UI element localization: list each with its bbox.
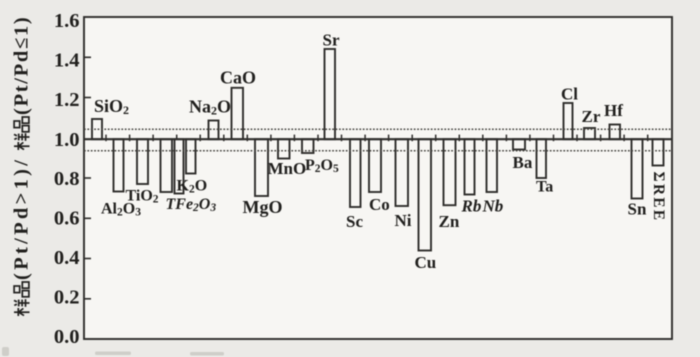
faint scan smudge bottom left bbox=[2, 347, 224, 356]
bar Sr bbox=[325, 49, 336, 139]
svg-text:1.2: 1.2 bbox=[54, 89, 80, 111]
bar Rb bbox=[465, 139, 475, 194]
svg-text:Rb: Rb bbox=[461, 197, 482, 216]
bar P2O5 bbox=[302, 139, 314, 153]
y axis title: 样品(Pt/Pd>1)/样品(Pt/Pd<=1) rotated bbox=[11, 16, 33, 316]
svg-text:Cu: Cu bbox=[415, 253, 437, 272]
svg-text:Zr: Zr bbox=[582, 107, 601, 126]
svg-text:ΣREE: ΣREE bbox=[650, 172, 667, 223]
y tick 1.4 bbox=[84, 56, 91, 58]
bar TFe2O3 b bbox=[175, 139, 184, 193]
svg-text:Ni: Ni bbox=[395, 211, 412, 230]
bars bbox=[92, 49, 664, 251]
bar SiO2 bbox=[92, 119, 102, 139]
element labels bbox=[94, 31, 667, 273]
svg-text:Nb: Nb bbox=[482, 197, 504, 216]
svg-text:Hf: Hf bbox=[604, 101, 623, 120]
bar Ni bbox=[396, 139, 409, 206]
bar Sn bbox=[632, 139, 643, 198]
svg-text:Ta: Ta bbox=[536, 179, 553, 196]
svg-text:1.6: 1.6 bbox=[54, 10, 80, 32]
svg-text:MgO: MgO bbox=[243, 197, 283, 217]
y tick 1.2 bbox=[84, 97, 91, 99]
upper dotted reference line (1.05) bbox=[84, 128, 672, 130]
bar Co bbox=[369, 139, 381, 192]
y tick 0.8 bbox=[84, 177, 91, 179]
hanzi pin 1 bbox=[14, 282, 29, 297]
bar Zr bbox=[584, 128, 595, 139]
svg-text:MnO: MnO bbox=[268, 159, 307, 178]
bar Ta bbox=[537, 139, 547, 178]
svg-text:1.0: 1.0 bbox=[54, 129, 80, 151]
svg-text:0.8: 0.8 bbox=[54, 168, 80, 190]
svg-text:0.2: 0.2 bbox=[54, 287, 80, 309]
svg-text:Sc: Sc bbox=[346, 212, 363, 231]
plot area box bbox=[84, 17, 672, 339]
bar Hf bbox=[610, 125, 621, 140]
y tick 0.4 bbox=[84, 258, 91, 260]
svg-text:Zn: Zn bbox=[439, 212, 460, 231]
bar Zn bbox=[444, 139, 456, 205]
hanzi yang 1 bbox=[14, 299, 30, 316]
bar Ba bbox=[513, 139, 525, 149]
bar MgO bbox=[255, 139, 268, 196]
y tick 0.6 bbox=[84, 217, 91, 219]
bar SigmaREE bbox=[653, 139, 664, 165]
svg-text:Sn: Sn bbox=[628, 199, 647, 218]
svg-text:Cl: Cl bbox=[561, 85, 578, 104]
svg-text:Sr: Sr bbox=[323, 31, 340, 50]
svg-text:Co: Co bbox=[369, 195, 390, 214]
svg-text:1.4: 1.4 bbox=[54, 50, 80, 72]
svg-text:Na2O: Na2O bbox=[189, 97, 231, 118]
svg-text:TFe2O3: TFe2O3 bbox=[166, 196, 217, 214]
svg-text:(Pt/Pd≤1): (Pt/Pd≤1) bbox=[11, 16, 33, 115]
bar TiO2 bbox=[137, 139, 148, 184]
svg-text:0.0: 0.0 bbox=[54, 326, 80, 348]
hanzi yang 2 bbox=[14, 133, 30, 150]
svg-text:Ba: Ba bbox=[513, 153, 533, 172]
bar K2O bbox=[186, 139, 196, 173]
svg-text:CaO: CaO bbox=[220, 67, 256, 87]
x axis category boundary ticks bbox=[106, 135, 648, 142]
hanzi pin 2 bbox=[14, 117, 29, 132]
bar Cu bbox=[419, 139, 432, 250]
bar Al2O3 bbox=[114, 139, 124, 191]
bar MnO bbox=[278, 139, 290, 158]
y tick 0.2 bbox=[84, 298, 91, 300]
svg-text:0.6: 0.6 bbox=[54, 208, 80, 230]
bar Cl bbox=[564, 103, 573, 139]
lower dotted reference line (0.95) bbox=[84, 150, 672, 152]
bar CaO bbox=[232, 88, 244, 139]
bar Nb bbox=[487, 139, 498, 192]
svg-text:0.4: 0.4 bbox=[54, 247, 80, 269]
svg-text:(Pt/Pd>1)/: (Pt/Pd>1)/ bbox=[11, 157, 33, 280]
baseline y=1.0 bbox=[84, 138, 672, 140]
bar Na2O bbox=[209, 121, 219, 140]
bar TFe2O3 a bbox=[161, 139, 173, 192]
bar Sc bbox=[350, 139, 361, 207]
y axis labels bbox=[54, 10, 80, 348]
